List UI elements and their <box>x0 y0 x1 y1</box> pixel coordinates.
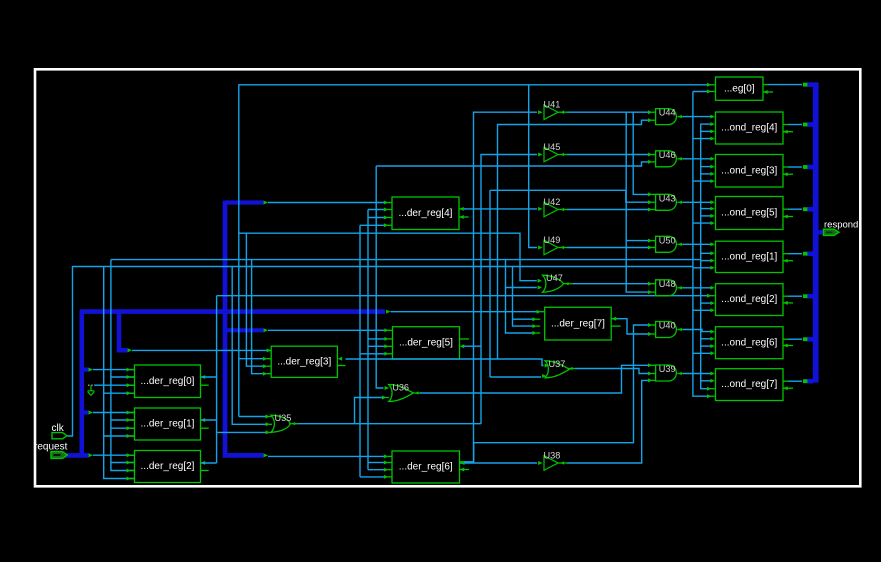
net respond bus - notch 2 <box>807 165 813 170</box>
net U37 in2 from x490 <box>490 376 541 378</box>
svg-text:U40: U40 <box>659 321 676 331</box>
net der_reg[5] out east <box>460 344 464 348</box>
buffer U41 <box>544 100 561 120</box>
net U41 out branch vertical x626 <box>626 112 649 292</box>
svg-text:request: request <box>34 442 68 453</box>
net r1 output to bus <box>783 253 789 255</box>
svg-text:U43: U43 <box>659 193 676 203</box>
net branch to U35 in3 <box>217 431 267 433</box>
svg-text:...ond_reg[2]: ...ond_reg[2] <box>721 294 777 305</box>
net U44 out <box>677 116 684 118</box>
net der7 pin2 stub <box>513 318 535 320</box>
net request bus - stub to der_reg[1] <box>82 410 89 414</box>
svg-text:U35: U35 <box>275 413 292 423</box>
net der_reg[1] out <box>201 419 217 421</box>
net r1 pin2 stub <box>701 252 711 254</box>
net der_reg[0] out east y295 <box>217 295 711 297</box>
net request bus - port to vertical <box>62 453 89 458</box>
net U37 out to U39 in2 <box>568 368 576 370</box>
net U41 branch to U50 in1 <box>626 240 649 242</box>
register der_reg[0] <box>135 365 201 398</box>
svg-text:...der_reg[6]: ...der_reg[6] <box>399 462 453 473</box>
net der_reg[6] out to U40 in1 <box>460 461 466 463</box>
net row2 - stub der_reg[1] pin3 <box>111 427 134 429</box>
net respond bus - vertical right <box>813 82 819 382</box>
port respond <box>824 219 859 235</box>
r7 right stub <box>783 387 793 389</box>
net request bus - main horizontal <box>80 309 385 314</box>
svg-text:...ond_reg[3]: ...ond_reg[3] <box>721 165 777 176</box>
net respond bus - notch 1 <box>807 122 813 127</box>
net der_reg[6] Q to U38 <box>460 462 537 464</box>
buffer U49 <box>544 235 561 255</box>
net respond bus - notch 0 <box>807 82 813 87</box>
net r4 pin2 stub <box>701 123 711 125</box>
register der_reg[5] <box>393 327 460 359</box>
svg-text:U41: U41 <box>544 100 561 110</box>
net der6 pin3 stub <box>368 469 384 471</box>
svg-text:...der_reg[0]: ...der_reg[0] <box>141 376 195 387</box>
buffer U45 <box>544 142 561 162</box>
net r5 output to bus <box>783 208 789 210</box>
net r6 output to bus <box>783 338 789 340</box>
net x376 vertical to U36 in1 <box>376 166 383 388</box>
port clk <box>52 423 68 439</box>
register der_reg[7] <box>545 307 612 340</box>
OR gate U37 <box>545 359 570 378</box>
der_reg[6] right stub <box>460 469 470 471</box>
der_reg[5] right stub <box>460 338 470 340</box>
net clk - stub der_reg[1] pin4 <box>104 435 134 437</box>
net U44 in2 feeder x497 <box>498 120 650 359</box>
net right feeder x692.9 (clk) <box>693 92 711 397</box>
r6 right stub <box>783 345 793 347</box>
svg-text:U42: U42 <box>544 197 561 207</box>
register der_reg[4] <box>392 197 459 230</box>
net U45 input feeder x481 (U35 out) <box>481 155 537 424</box>
register ond_reg[6] <box>716 327 784 359</box>
net r3 pin4 stub <box>693 180 711 182</box>
net U40 out <box>677 329 684 331</box>
net U38 input feeder x490 <box>489 190 491 377</box>
register ond_reg[3] <box>716 155 784 188</box>
OR gate U47 <box>543 273 564 292</box>
net request - cyan to der_reg[7] pin1 <box>391 311 539 313</box>
net top y85 - corner to eg[0] <box>239 85 711 417</box>
eg0 right stub <box>763 91 773 93</box>
net der_reg[0] out <box>201 376 217 378</box>
r3 right stub <box>783 173 793 175</box>
net row2 - horizontal distribution <box>111 259 701 261</box>
svg-text:...ond_reg[5]: ...ond_reg[5] <box>721 208 777 219</box>
net U41 input feeder x473 (der_reg[6] Q) <box>474 112 538 463</box>
net U47 out to U48 in1 <box>564 283 575 285</box>
net eg[0] pin2 stub <box>693 91 711 93</box>
svg-text:...der_reg[7]: ...der_reg[7] <box>551 318 605 329</box>
net eg0 output to bus <box>763 84 769 86</box>
der_reg[7] right stub <box>611 325 621 327</box>
svg-text:U36: U36 <box>392 383 409 393</box>
svg-text:U44: U44 <box>659 108 676 118</box>
net U49 out to U50 in2 <box>558 247 567 249</box>
net U41 branch to U43 in1 <box>633 112 649 194</box>
net r5 pin4 stub <box>693 222 711 224</box>
net request bus - branch to der_reg[3] <box>119 312 128 351</box>
net r4 pin4 stub <box>693 138 711 140</box>
der_reg[3] right stub <box>338 365 346 367</box>
net U43 out <box>677 201 684 203</box>
register ond_reg[1] <box>716 241 784 272</box>
net U35 out east <box>290 423 298 425</box>
net respond bus - notch 5 <box>807 294 813 299</box>
net der5 pin4 stub <box>360 353 385 355</box>
net r7 output to bus <box>783 380 789 382</box>
net der5 pin2 stub <box>368 338 385 340</box>
net clk - vertical feeder x103.7 <box>104 267 134 479</box>
r5 right stub <box>783 216 793 218</box>
net row2 - stub der_reg[0] pin2 <box>111 376 134 378</box>
net request - cyan to der_reg[2] pin1 <box>93 454 134 456</box>
svg-text:U47: U47 <box>546 273 563 283</box>
OR gate U35 <box>271 413 291 432</box>
net U50 out <box>677 243 684 245</box>
net clk - stub der_reg[0] pin4 <box>104 392 134 394</box>
net der_reg[2] out <box>201 462 217 464</box>
net U41 out to U44/U50/U48 <box>558 111 567 113</box>
AND gate U39 <box>656 364 677 381</box>
svg-text:...ond_reg[4]: ...ond_reg[4] <box>721 123 777 134</box>
net r6 pin2 stub <box>701 338 711 340</box>
net gnd - to der_reg[0] pin3 <box>94 384 134 386</box>
net row2 - stub der_reg[1] pin2 <box>111 419 134 421</box>
register der_reg[1] <box>135 408 201 440</box>
svg-text:...eg[0]: ...eg[0] <box>724 83 755 94</box>
net request bus - stub to der_reg[0] <box>82 368 89 372</box>
net request - cyan to der_reg[4] pin1 <box>268 202 385 204</box>
svg-text:...ond_reg[7]: ...ond_reg[7] <box>721 379 777 390</box>
r4 right stub <box>783 131 793 133</box>
net respond bus - stub to respond port <box>818 230 824 234</box>
net der4 pin4 stub <box>360 224 385 226</box>
register ond_reg[4] <box>716 112 784 144</box>
net request - cyan to der_reg[0] pin1 <box>93 369 134 371</box>
r2 right stub <box>783 302 793 304</box>
register der_reg[6] <box>392 451 460 483</box>
net U38 out to U39 in3 <box>558 462 567 464</box>
net r6 pin4 stub <box>693 352 711 354</box>
net y85 branch to U49 <box>529 85 537 248</box>
net der7 pin2-pin3 feeder <box>513 267 535 327</box>
net respond bus - notch 6 <box>807 337 813 342</box>
net r6 pin3 stub <box>701 345 711 347</box>
net request bus - vertical mid <box>225 201 264 456</box>
svg-text:...ond_reg[1]: ...ond_reg[1] <box>721 251 777 262</box>
svg-text:...der_reg[1]: ...der_reg[1] <box>141 419 195 430</box>
net r2 output to bus <box>783 295 789 297</box>
AND gate U43 <box>656 193 677 210</box>
net request bus - vertical left <box>80 312 85 456</box>
net request - cyan to der_reg[6] pin1 <box>268 455 384 457</box>
net feeder x232 to U35 in2 <box>232 267 266 425</box>
net r3 pin2 stub <box>701 166 711 168</box>
svg-text:U50: U50 <box>659 235 676 245</box>
net der_reg[3] out to U37 in1 <box>346 359 544 366</box>
svg-text:U49: U49 <box>544 235 561 245</box>
svg-text:...der_reg[4]: ...der_reg[4] <box>399 208 453 219</box>
svg-text:U46: U46 <box>659 150 676 160</box>
AND gate U46 <box>656 150 677 167</box>
register ond_reg[2] <box>716 284 784 316</box>
net row2 - vertical feeder x110.9 <box>111 260 134 471</box>
schematic sheet frame <box>35 69 860 486</box>
net request bus - stub to der_reg[5] <box>225 328 264 332</box>
net U46 in2 feeder from x376 corner <box>376 162 649 166</box>
net U35 branch to U36 in2 <box>355 398 384 424</box>
AND gate U50 <box>656 235 677 252</box>
net der4 pin3 stub <box>368 217 385 219</box>
register ond_reg[5] <box>716 197 784 230</box>
net der4 pin2 stub <box>368 209 385 211</box>
net y233 - horizontal to U47 <box>239 233 537 281</box>
net U48 out <box>677 287 684 289</box>
der_reg[1] right stub <box>201 427 209 429</box>
AND gate U44 <box>656 108 677 125</box>
net r5 pin3 stub <box>701 215 711 217</box>
net request - cyan to der_reg[1] pin1 <box>93 412 134 414</box>
net U42 out to U43 in2 <box>558 209 567 211</box>
net row2 - stub der_reg[2] pin2 <box>111 462 134 464</box>
buffer U38 <box>544 451 561 471</box>
net clk - port to distribution row <box>68 267 693 437</box>
net request - cyan to der_reg[5] pin1 <box>268 329 385 331</box>
net r2 pin3 stub <box>701 302 711 304</box>
svg-text:...der_reg[2]: ...der_reg[2] <box>141 461 195 472</box>
port request <box>34 442 68 459</box>
net request bus - stub to der_reg[4] <box>225 200 264 204</box>
svg-text:U37: U37 <box>549 359 566 369</box>
net U36 out to U39 in1 <box>413 392 421 394</box>
net der3 pin3 feeder <box>246 233 266 366</box>
net respond bus - notch 3 <box>807 207 813 212</box>
net der outputs spine x216.6 <box>216 296 218 463</box>
AND gate U40 <box>656 321 677 338</box>
der_reg[0] right stub <box>201 384 209 386</box>
net r7 pin2 stub <box>701 380 711 382</box>
net der3 pin2 from x238.8 <box>239 358 266 360</box>
register eg[0] <box>716 77 764 100</box>
net r3 output to bus <box>783 166 789 168</box>
ground tie on der_reg[0] pin3 <box>88 384 94 386</box>
net der6 pin2 stub <box>368 462 384 464</box>
net der3 pin4 feeder <box>252 260 266 374</box>
svg-text:...der_reg[3]: ...der_reg[3] <box>277 356 331 367</box>
svg-text:...ond_reg[6]: ...ond_reg[6] <box>721 337 777 348</box>
net r1 pin3 stub <box>701 260 711 262</box>
svg-text:U48: U48 <box>659 279 676 289</box>
net U45 out to U46 in1 <box>558 154 567 156</box>
net x490 top to U43 in2 <box>490 190 650 202</box>
net r1 pin4 stub <box>693 267 711 269</box>
buffer U42 <box>544 197 561 217</box>
net r4 output to bus <box>783 124 789 126</box>
svg-text:U39: U39 <box>659 364 676 374</box>
net r5 pin2 stub <box>701 208 711 210</box>
register der_reg[3] <box>271 346 337 377</box>
AND gate U48 <box>656 279 677 296</box>
net request - cyan to der_reg[3] pin1 <box>132 349 271 351</box>
svg-text:...der_reg[5]: ...der_reg[5] <box>399 337 453 348</box>
net der_reg[7] out to U40 in2 <box>611 318 617 320</box>
net r3 pin3 stub <box>701 173 711 175</box>
net der6 pin4 stub <box>360 476 384 478</box>
net U39 out <box>677 373 684 375</box>
register ond_reg[7] <box>716 369 784 401</box>
net respond bus - notch 4 <box>807 251 813 256</box>
der_reg[2] right stub <box>201 470 209 472</box>
net U47 in2 feeder <box>506 287 537 289</box>
net respond bus - notch 7 <box>807 379 813 384</box>
net branch to U35 in1 <box>239 416 266 418</box>
register der_reg[2] <box>135 451 201 483</box>
svg-text:U45: U45 <box>544 142 561 152</box>
net der7 pin4 feeder <box>506 260 535 333</box>
r1 right stub <box>783 260 793 262</box>
net der_reg[4] out to U42 <box>459 208 465 210</box>
net right feeder x700.7 <box>701 124 711 389</box>
net r4 pin3 stub <box>701 130 711 132</box>
der_reg[4] right stub <box>459 216 469 218</box>
net U46 out <box>677 158 684 160</box>
net der4 pin4 vertical x360 <box>359 225 361 477</box>
net der4 pin2 vertical x368 <box>367 210 369 470</box>
net der5 pin3 stub <box>368 345 385 347</box>
svg-text:U38: U38 <box>544 451 561 461</box>
net r2 pin4 stub <box>693 309 711 311</box>
OR gate U36 <box>389 383 414 402</box>
